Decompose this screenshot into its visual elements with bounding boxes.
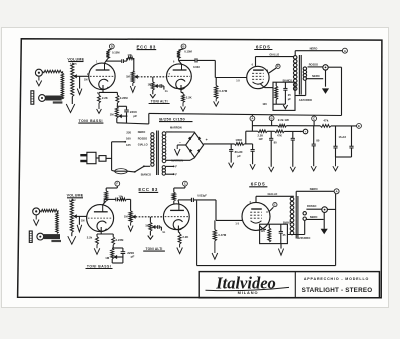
svg-text:E: E xyxy=(277,64,279,68)
svg-text:NERO: NERO xyxy=(310,215,318,219)
svg-text:pF: pF xyxy=(131,255,135,259)
svg-text:1M: 1M xyxy=(145,223,149,227)
svg-text:0.47M: 0.47M xyxy=(219,89,227,93)
svg-text:0.22M: 0.22M xyxy=(116,238,124,242)
svg-text:2.2K: 2.2K xyxy=(258,133,264,137)
svg-text:100Ω: 100Ω xyxy=(235,138,243,142)
svg-text:μF: μF xyxy=(237,154,241,158)
svg-text:160: 160 xyxy=(126,137,131,141)
svg-text:1-5: 1-5 xyxy=(236,80,240,83)
svg-text:2.2K: 2.2K xyxy=(182,235,188,239)
svg-text:TONI ALTI: TONI ALTI xyxy=(151,99,168,103)
svg-text:MILANO: MILANO xyxy=(238,290,259,295)
svg-text:APPARECCHIO - MODELLO: APPARECCHIO - MODELLO xyxy=(304,277,369,281)
svg-text:+: + xyxy=(300,130,302,134)
svg-text:F: F xyxy=(175,165,177,169)
svg-text:220: 220 xyxy=(126,130,131,134)
svg-text:0.47M: 0.47M xyxy=(218,233,226,237)
svg-text:VOLUME: VOLUME xyxy=(67,57,84,61)
svg-text:2.2k 1W: 2.2k 1W xyxy=(278,118,289,122)
svg-text:TONI ALTI: TONI ALTI xyxy=(146,247,163,251)
svg-text:1M: 1M xyxy=(105,256,110,260)
svg-text:16+16: 16+16 xyxy=(339,135,347,139)
svg-text:125: 125 xyxy=(126,143,131,147)
svg-text:1M: 1M xyxy=(84,79,87,82)
svg-text:pF: pF xyxy=(133,114,137,118)
svg-text:47k: 47k xyxy=(323,119,328,123)
svg-text:ROSSO: ROSSO xyxy=(307,204,316,208)
svg-text:STARLIGHT - STEREO: STARLIGHT - STEREO xyxy=(302,287,373,294)
svg-text:1M: 1M xyxy=(110,112,115,116)
svg-text:2.2K: 2.2K xyxy=(186,95,192,99)
svg-text:6FD5: 6FD5 xyxy=(251,182,266,187)
svg-text:1n: 1n xyxy=(165,89,168,93)
svg-text:AZZURRO: AZZURRO xyxy=(299,98,312,102)
svg-text:1W: 1W xyxy=(259,137,263,141)
svg-text:E: E xyxy=(358,124,360,128)
svg-text:2.2K: 2.2K xyxy=(102,96,108,100)
svg-text:0.5M/C: 0.5M/C xyxy=(70,64,77,66)
svg-text:80: 80 xyxy=(274,141,277,145)
svg-text:0.15M: 0.15M xyxy=(112,50,120,54)
svg-text:120: 120 xyxy=(262,102,267,106)
svg-text:0.033: 0.033 xyxy=(193,65,200,69)
svg-text:AZZURRO: AZZURRO xyxy=(297,236,310,240)
svg-text:GIALLO: GIALLO xyxy=(268,192,278,196)
svg-text:NERO: NERO xyxy=(310,46,318,50)
svg-text:120: 120 xyxy=(261,229,266,233)
svg-text:0.033μF: 0.033μF xyxy=(197,194,207,198)
svg-text:25: 25 xyxy=(288,93,291,97)
svg-text:1M: 1M xyxy=(148,82,152,86)
svg-text:BIANCO: BIANCO xyxy=(283,221,293,224)
svg-text:ECC 83: ECC 83 xyxy=(137,44,157,49)
svg-text:GIALLO: GIALLO xyxy=(269,52,279,56)
svg-text:C: C xyxy=(274,203,276,207)
svg-text:1M: 1M xyxy=(81,219,84,222)
svg-text:μF: μF xyxy=(288,98,292,101)
svg-text:F: F xyxy=(116,182,118,186)
svg-text:80: 80 xyxy=(316,139,319,143)
svg-text:ECC 83: ECC 83 xyxy=(138,187,158,192)
svg-text:1n: 1n xyxy=(162,230,165,234)
svg-text:GIALLO: GIALLO xyxy=(138,143,148,147)
svg-text:F: F xyxy=(175,172,177,176)
svg-text:0.22M: 0.22M xyxy=(120,96,128,100)
svg-text:VOLUME: VOLUME xyxy=(67,194,84,198)
svg-text:B/250 C/150: B/250 C/150 xyxy=(159,116,185,121)
svg-text:−: − xyxy=(179,141,181,145)
svg-text:0.15M: 0.15M xyxy=(184,50,192,54)
svg-text:NERO: NERO xyxy=(138,130,146,134)
svg-text:ROSSO: ROSSO xyxy=(138,136,147,140)
svg-text:2.2k: 2.2k xyxy=(87,236,93,240)
svg-text:NERO: NERO xyxy=(310,187,318,191)
svg-text:+: + xyxy=(305,130,307,134)
svg-text:BIANCO: BIANCO xyxy=(141,172,151,176)
svg-text:TONI BASSI: TONI BASSI xyxy=(87,264,111,268)
svg-text:10k: 10k xyxy=(127,53,132,57)
svg-text:0.5M/C: 0.5M/C xyxy=(69,200,76,202)
svg-text:MARRON: MARRON xyxy=(170,126,182,130)
svg-text:+: + xyxy=(206,138,208,142)
svg-text:6FD5: 6FD5 xyxy=(256,44,271,49)
svg-text:TONI BASSI: TONI BASSI xyxy=(79,119,103,123)
svg-text:1-5: 1-5 xyxy=(235,222,239,225)
svg-text:NERO: NERO xyxy=(312,74,320,78)
svg-text:ROSSO: ROSSO xyxy=(309,63,318,67)
svg-text:47K: 47K xyxy=(277,133,282,137)
svg-text:10k: 10k xyxy=(118,194,123,198)
svg-text:BIANCO: BIANCO xyxy=(283,79,293,82)
